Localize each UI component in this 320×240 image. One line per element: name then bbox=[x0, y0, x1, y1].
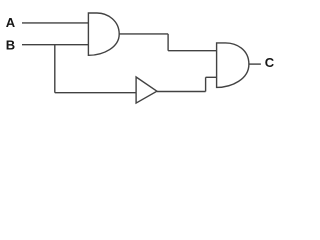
wire to U2 top input bbox=[168, 50, 217, 52]
svg-text:B: B bbox=[6, 38, 15, 53]
wire input A bbox=[22, 22, 88, 24]
and gate U2 bbox=[217, 43, 249, 88]
svg-text:A: A bbox=[6, 15, 16, 30]
wire U1 output bbox=[119, 33, 168, 35]
wire jog down bbox=[167, 34, 169, 51]
wire to U2 bottom input bbox=[206, 76, 217, 78]
svg-text:C: C bbox=[265, 55, 275, 70]
wire input B bbox=[22, 44, 88, 46]
wire B branch vertical bbox=[54, 45, 56, 93]
wire output C bbox=[249, 63, 261, 65]
wire B branch to buffer bbox=[55, 92, 136, 94]
buffer U3 bbox=[136, 77, 157, 103]
and gate U1 bbox=[88, 13, 119, 55]
wire U3 output bbox=[157, 91, 206, 93]
wire jog up bbox=[205, 77, 207, 91]
